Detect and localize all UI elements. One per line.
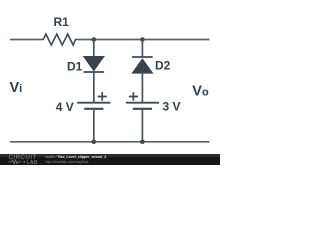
svg-text:D1: D1 [67, 60, 83, 74]
wire: top rail left segment [10, 39, 41, 41]
node: junction dot bottom right [140, 140, 145, 145]
svg-text:3 V: 3 V [163, 99, 181, 113]
resistor R1 [41, 34, 78, 45]
svg-text:Vo: Vo [192, 84, 209, 100]
diode D2 (cathode up) [132, 57, 153, 73]
svg-text:http://circuitlab.com/czaq36pk: http://circuitlab.com/czaq36pk [45, 160, 89, 164]
wire: bottom rail [10, 141, 210, 143]
wire: D2 branch from top rail [141, 40, 143, 58]
node: junction dot top right [140, 37, 145, 42]
svg-text:LAB: LAB [27, 160, 38, 165]
wire: D1 to battery V1 [93, 72, 95, 102]
node: junction dot top left [92, 37, 97, 42]
wire: battery V1 to bottom rail [93, 109, 95, 142]
CircuitLab logo [9, 154, 38, 166]
watermark bar [0, 154, 220, 165]
svg-text:4 V: 4 V [56, 100, 74, 114]
svg-text:studio / Two_Level_clipper_cir: studio / Two_Level_clipper_circuit_2 [45, 155, 106, 159]
wire: D2 to battery V2 [141, 73, 143, 102]
wire: D1 branch from top rail [93, 40, 95, 57]
battery V2 3V [126, 92, 159, 109]
node: junction dot bottom left [92, 140, 97, 145]
battery V1 4V [77, 92, 110, 109]
wire: battery V2 to bottom rail [141, 109, 143, 142]
diode D1 (cathode down) [84, 56, 105, 72]
svg-text:Vi: Vi [10, 80, 23, 96]
svg-text:R1: R1 [54, 15, 70, 29]
svg-text:D2: D2 [155, 58, 171, 72]
wire: top rail middle segment [78, 39, 210, 41]
